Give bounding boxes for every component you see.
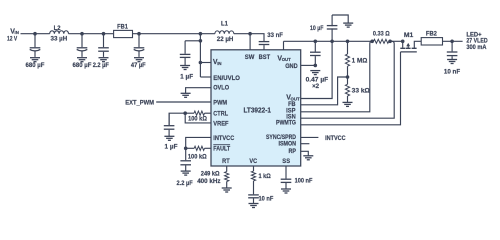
svg-text:BST: BST (259, 54, 271, 61)
wire VIN rail down (199, 34, 201, 77)
capacitor 680uF #2 (81, 34, 83, 48)
ground (249, 203, 259, 205)
svg-text:100 kΩ: 100 kΩ (188, 116, 207, 123)
ground (222, 187, 232, 189)
ground (30, 57, 40, 59)
svg-text:10 nF: 10 nF (259, 195, 274, 202)
svg-text:CTRL: CTRL (213, 111, 228, 118)
resistor 1M (347, 41, 349, 54)
svg-text:INTVCC: INTVCC (325, 135, 346, 142)
ferrite bead FB2 (421, 38, 442, 45)
IC U1 LT3922-1 body (211, 50, 301, 166)
node junction FB divider (346, 75, 350, 79)
node junction 0.47uF (314, 40, 318, 44)
wire ISMON stub (301, 143, 310, 145)
svg-text:RT: RT (222, 158, 230, 165)
svg-text:0.33 Ω: 0.33 Ω (373, 31, 390, 38)
inductor L1 (215, 31, 234, 34)
svg-text:EN/UVLO: EN/UVLO (213, 75, 240, 82)
wire 10uF top to ground (332, 15, 348, 23)
svg-text:22 µH: 22 µH (217, 36, 234, 43)
ground (164, 135, 174, 137)
svg-text:FB2: FB2 (426, 31, 437, 38)
wire SYNC/SPRD to INTVCC (301, 136, 319, 138)
svg-text:2.2 µF: 2.2 µF (177, 180, 193, 187)
ground (310, 70, 320, 72)
wire INTVCC pin (186, 137, 211, 148)
node junction GND pin (314, 64, 318, 68)
node junction output cap (450, 40, 454, 44)
wire BST branch (250, 34, 264, 41)
svg-text:ISMON: ISMON (279, 141, 297, 148)
node junction input cap2 (80, 32, 84, 36)
capacitor 47uF (138, 34, 140, 48)
svg-text:10 nF: 10 nF (444, 69, 460, 76)
resistor 100k FAULT (186, 147, 195, 149)
svg-text:PWMTG: PWMTG (276, 120, 296, 127)
svg-text:L2: L2 (54, 25, 61, 32)
svg-text:SW: SW (245, 54, 255, 61)
svg-text:1 kΩ: 1 kΩ (259, 173, 271, 180)
svg-text:EXT_PWM: EXT_PWM (125, 99, 154, 106)
svg-text:RP: RP (289, 148, 297, 155)
wire VIN pin (200, 62, 211, 64)
inductor L2 (50, 31, 69, 34)
svg-text:249 kΩ: 249 kΩ (201, 170, 220, 177)
wire FB2 to output (443, 40, 463, 42)
svg-text:OVLO: OVLO (213, 84, 229, 91)
svg-text:IN: IN (217, 61, 221, 66)
svg-text:1 MΩ: 1 MΩ (352, 57, 368, 64)
resistor 249k RT (226, 166, 228, 172)
wire PWM pin (156, 101, 211, 103)
svg-text:M1: M1 (404, 32, 414, 39)
svg-text:33 kΩ: 33 kΩ (352, 88, 370, 95)
svg-text:300 mA: 300 mA (466, 44, 487, 51)
capacitor 2.2uF input (103, 34, 105, 48)
capacitor 1uF VIN (184, 41, 186, 54)
wire ISN sense (301, 41, 395, 118)
wire SW pin (249, 34, 251, 50)
capacitor 10nF VC (253, 181, 255, 194)
ground (447, 59, 457, 61)
node junction VIN pin (199, 61, 203, 65)
ground (180, 65, 190, 67)
wire CTRL cap branch (169, 113, 185, 125)
svg-text:1 µF: 1 µF (180, 73, 193, 80)
wire ISP sense (301, 41, 373, 112)
svg-text:33 µH: 33 µH (51, 35, 68, 42)
svg-text:PWM: PWM (213, 99, 227, 106)
capacitor 680uF #1 (34, 34, 36, 48)
capacitor 33nF BST (259, 41, 270, 43)
svg-text:680 µF: 680 µF (26, 62, 45, 69)
node junction 1uF branch (199, 39, 203, 43)
ground (303, 155, 313, 157)
wire OVLO to ground (186, 88, 211, 93)
node junction VIN rail to IC (199, 32, 203, 36)
svg-text:1 µF: 1 µF (165, 144, 178, 151)
wire L1 to SW (234, 33, 250, 35)
svg-text:FB1: FB1 (117, 23, 128, 30)
ground (134, 57, 144, 59)
ferrite bead FB1 (114, 30, 133, 37)
ground (181, 92, 191, 94)
capacitor 2.2uF INTVCC (185, 148, 187, 160)
node junction ISN (388, 40, 392, 44)
resistor 33k (347, 77, 349, 84)
resistor 100k CTRL (185, 112, 194, 114)
svg-text:GND: GND (285, 63, 298, 70)
node junction input cap3 (102, 32, 106, 36)
svg-text:×2: ×2 (312, 83, 319, 90)
wire GND pin (301, 64, 316, 66)
node junction 10uF / VOUT sense (330, 40, 334, 44)
svg-text:100 nF: 100 nF (295, 178, 313, 185)
svg-text:33 nF: 33 nF (267, 32, 283, 39)
svg-text:VC: VC (249, 158, 257, 165)
ground (343, 22, 353, 24)
svg-text:L1: L1 (221, 20, 228, 27)
svg-text:47 µF: 47 µF (131, 62, 146, 69)
svg-text:12 V: 12 V (7, 35, 18, 42)
svg-text:100 kΩ: 100 kΩ (188, 153, 207, 160)
node junction CTRL network (183, 111, 187, 115)
node junction divider top (346, 40, 350, 44)
ground (99, 57, 109, 59)
svg-text:2.2 µF: 2.2 µF (93, 62, 109, 69)
wire VOUT pin up (283, 41, 285, 50)
svg-text:400 kHz: 400 kHz (197, 178, 220, 185)
capacitor 1uF CTRL (168, 113, 170, 125)
ground (281, 188, 291, 190)
wire RP to ground (301, 151, 309, 155)
svg-text:LT3922-1: LT3922-1 (243, 108, 271, 115)
wire input rail (21, 33, 50, 35)
wire EN/UVLO pin (200, 76, 211, 78)
ground (343, 101, 353, 103)
svg-text:10 µF: 10 µF (310, 25, 324, 32)
capacitor 10nF output (451, 41, 453, 51)
resistor 1k VC (253, 166, 255, 171)
wire VREF pin (185, 113, 211, 123)
node junction input cap1 (33, 32, 37, 36)
ground (181, 170, 191, 172)
node junction FAULT network (184, 147, 188, 151)
svg-text:FAULT: FAULT (213, 146, 230, 153)
wire VOUT sense (301, 41, 332, 98)
resistor 0.33 ohm sense (374, 39, 389, 43)
node junction SW (248, 32, 252, 36)
capacitor 10uF (331, 28, 333, 41)
capacitor 100nF SS (285, 166, 287, 179)
ground (77, 57, 87, 59)
svg-text:OUT: OUT (282, 57, 291, 62)
wire output rail (284, 40, 373, 42)
svg-text:680 µF: 680 µF (73, 62, 92, 69)
wire to input 1uF (185, 40, 200, 42)
svg-text:VREF: VREF (213, 120, 228, 127)
capacitor 0.47uF x2 (314, 41, 316, 51)
svg-text:SS: SS (282, 158, 290, 165)
svg-text:INTVCC: INTVCC (213, 135, 234, 142)
node junction ISP (370, 40, 374, 44)
wire FB pin (301, 77, 348, 105)
wire PWMTG to gate (301, 52, 401, 125)
node junction after FB1 (137, 32, 141, 36)
